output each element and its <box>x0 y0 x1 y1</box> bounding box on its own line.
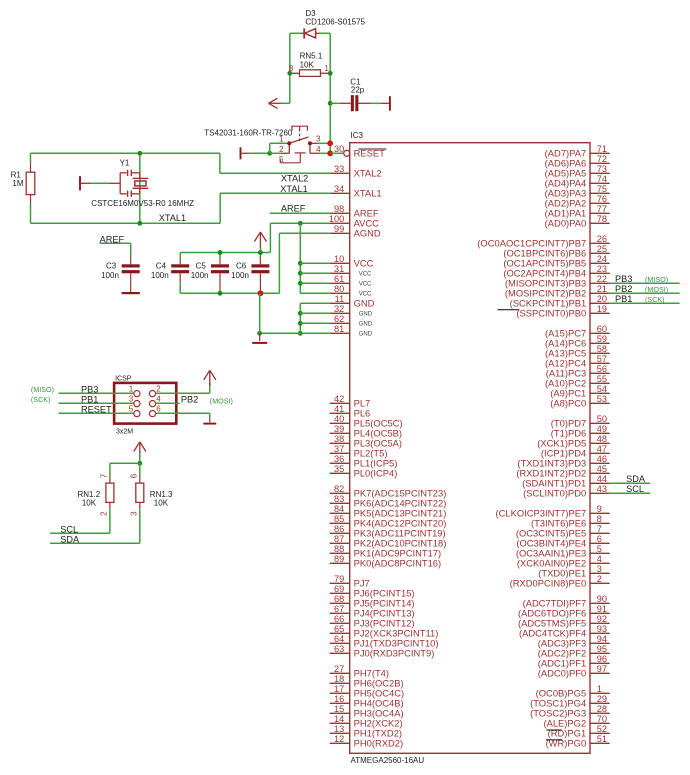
svg-text:XTAL2: XTAL2 <box>354 168 382 179</box>
svg-text:C3: C3 <box>106 261 117 270</box>
svg-text:80: 80 <box>334 284 344 294</box>
svg-text:PB2: PB2 <box>181 395 198 405</box>
svg-text:1M: 1M <box>12 179 23 188</box>
svg-text:6: 6 <box>156 404 161 413</box>
svg-text:7: 7 <box>100 473 109 478</box>
svg-text:9: 9 <box>597 504 602 514</box>
svg-text:23: 23 <box>597 264 607 274</box>
svg-text:42: 42 <box>334 394 344 404</box>
svg-text:2: 2 <box>279 145 284 154</box>
svg-text:PK0(ADC8PCINT16): PK0(ADC8PCINT16) <box>354 558 442 569</box>
svg-text:3: 3 <box>597 564 602 574</box>
svg-text:22: 22 <box>597 274 607 284</box>
svg-text:52: 52 <box>597 724 607 734</box>
svg-text:3: 3 <box>130 511 139 516</box>
svg-text:4: 4 <box>156 394 161 403</box>
svg-text:68: 68 <box>334 594 344 604</box>
svg-text:GND: GND <box>359 312 373 318</box>
svg-text:60: 60 <box>597 324 607 334</box>
svg-text:37: 37 <box>334 444 344 454</box>
svg-text:94: 94 <box>597 634 607 644</box>
svg-text:59: 59 <box>597 334 607 344</box>
svg-text:(MOSI): (MOSI) <box>210 397 233 406</box>
svg-text:3x2M: 3x2M <box>116 429 133 436</box>
svg-text:1: 1 <box>279 135 284 144</box>
svg-text:65: 65 <box>334 624 344 634</box>
svg-text:18: 18 <box>334 674 344 684</box>
svg-text:47: 47 <box>597 444 607 454</box>
svg-text:74: 74 <box>597 174 607 184</box>
svg-text:8: 8 <box>597 514 602 524</box>
svg-text:45: 45 <box>597 464 607 474</box>
svg-text:44: 44 <box>597 474 607 484</box>
svg-text:XTAL2: XTAL2 <box>281 174 308 184</box>
svg-text:(ADC0)PF0: (ADC0)PF0 <box>538 668 586 679</box>
svg-text:(RXD0PCIN8)PE0: (RXD0PCIN8)PE0 <box>510 578 587 589</box>
svg-text:PB2: PB2 <box>615 284 632 294</box>
svg-text:100: 100 <box>329 214 344 224</box>
svg-text:10K: 10K <box>300 60 315 69</box>
svg-text:28: 28 <box>597 704 607 714</box>
svg-text:IC3: IC3 <box>351 131 364 140</box>
svg-text:C5: C5 <box>196 261 207 270</box>
svg-text:33: 33 <box>334 164 344 174</box>
svg-text:21: 21 <box>597 284 607 294</box>
svg-text:5: 5 <box>279 155 284 164</box>
svg-text:66: 66 <box>334 614 344 624</box>
svg-text:2: 2 <box>156 384 161 393</box>
svg-text:XTAL1: XTAL1 <box>280 184 307 194</box>
svg-text:82: 82 <box>334 484 344 494</box>
svg-text:1: 1 <box>129 384 134 393</box>
svg-text:100n: 100n <box>231 271 249 280</box>
svg-text:GND: GND <box>354 298 375 309</box>
svg-text:64: 64 <box>334 634 344 644</box>
svg-text:92: 92 <box>597 614 607 624</box>
svg-text:34: 34 <box>334 184 344 194</box>
svg-text:16: 16 <box>334 694 344 704</box>
svg-text:13: 13 <box>334 724 344 734</box>
svg-text:40: 40 <box>334 414 344 424</box>
svg-text:10: 10 <box>334 254 344 264</box>
svg-text:2: 2 <box>597 574 602 584</box>
svg-text:VCC: VCC <box>354 258 374 269</box>
svg-text:24: 24 <box>597 254 607 264</box>
svg-text:84: 84 <box>334 504 344 514</box>
svg-text:AREF: AREF <box>281 204 306 214</box>
svg-text:GND: GND <box>359 332 373 338</box>
svg-text:78: 78 <box>597 214 607 224</box>
svg-text:32: 32 <box>334 304 344 314</box>
svg-text:77: 77 <box>597 204 607 214</box>
svg-text:5: 5 <box>597 544 602 554</box>
svg-text:95: 95 <box>597 644 607 654</box>
svg-text:55: 55 <box>597 374 607 384</box>
svg-text:62: 62 <box>334 314 344 324</box>
svg-text:96: 96 <box>597 654 607 664</box>
svg-text:88: 88 <box>334 544 344 554</box>
svg-text:67: 67 <box>334 604 344 614</box>
svg-text:(SCK): (SCK) <box>645 295 665 304</box>
svg-text:56: 56 <box>597 364 607 374</box>
svg-text:48: 48 <box>597 434 607 444</box>
svg-text:SDA: SDA <box>60 534 80 544</box>
svg-text:58: 58 <box>597 344 607 354</box>
svg-text:C4: C4 <box>156 261 167 270</box>
svg-text:27: 27 <box>334 664 344 674</box>
svg-text:VCC: VCC <box>359 282 372 288</box>
svg-text:VCC: VCC <box>359 272 372 278</box>
svg-text:12: 12 <box>334 734 344 744</box>
svg-text:SCL: SCL <box>626 484 644 494</box>
svg-text:49: 49 <box>597 424 607 434</box>
svg-text:79: 79 <box>334 574 344 584</box>
svg-text:91: 91 <box>597 604 607 614</box>
svg-text:RN1.3: RN1.3 <box>150 490 173 499</box>
svg-text:30: 30 <box>334 144 344 154</box>
svg-text:54: 54 <box>597 384 607 394</box>
svg-text:51: 51 <box>597 734 607 744</box>
svg-text:Y1: Y1 <box>120 159 130 168</box>
svg-text:35: 35 <box>334 464 344 474</box>
svg-text:3: 3 <box>129 394 134 403</box>
svg-text:C6: C6 <box>236 261 247 270</box>
svg-text:6: 6 <box>597 534 602 544</box>
svg-text:86: 86 <box>334 524 344 534</box>
svg-text:6: 6 <box>130 473 139 478</box>
svg-text:26: 26 <box>597 234 607 244</box>
svg-text:93: 93 <box>597 624 607 634</box>
svg-text:50: 50 <box>597 414 607 424</box>
svg-text:CSTCE16M0V53-R0 16MHZ: CSTCE16M0V53-R0 16MHZ <box>91 199 194 208</box>
svg-text:(A8)PC0: (A8)PC0 <box>550 398 586 409</box>
svg-text:CD1206-S01575: CD1206-S01575 <box>305 17 365 26</box>
svg-text:14: 14 <box>334 714 344 724</box>
svg-text:25: 25 <box>597 244 607 254</box>
svg-text:57: 57 <box>597 354 607 364</box>
svg-text:81: 81 <box>334 324 344 334</box>
svg-text:10K: 10K <box>82 499 97 508</box>
svg-text:RN5.1: RN5.1 <box>300 52 323 61</box>
svg-text:83: 83 <box>334 494 344 504</box>
svg-text:100n: 100n <box>101 271 119 280</box>
svg-text:76: 76 <box>597 194 607 204</box>
svg-text:85: 85 <box>334 514 344 524</box>
svg-text:36: 36 <box>334 454 344 464</box>
svg-text:29: 29 <box>597 694 607 704</box>
svg-text:61: 61 <box>334 274 344 284</box>
svg-text:PB3: PB3 <box>615 274 632 284</box>
svg-text:63: 63 <box>334 644 344 654</box>
svg-text:5: 5 <box>129 404 134 413</box>
svg-text:(SCLINT0)PD0: (SCLINT0)PD0 <box>523 488 586 499</box>
svg-text:2: 2 <box>100 511 109 516</box>
svg-text:PB1: PB1 <box>81 395 98 405</box>
svg-text:15: 15 <box>334 704 344 714</box>
svg-text:7: 7 <box>597 524 602 534</box>
svg-text:90: 90 <box>597 594 607 604</box>
svg-text:99: 99 <box>334 224 344 234</box>
svg-text:AGND: AGND <box>354 228 381 239</box>
svg-text:(AD0)PA0: (AD0)PA0 <box>545 218 587 229</box>
svg-text:1: 1 <box>597 684 602 694</box>
svg-text:(MISO): (MISO) <box>645 275 668 284</box>
svg-text:70: 70 <box>597 714 607 724</box>
svg-text:100n: 100n <box>151 271 169 280</box>
svg-text:53: 53 <box>597 394 607 404</box>
svg-text:46: 46 <box>597 454 607 464</box>
svg-text:RESET: RESET <box>81 405 112 415</box>
svg-text:PB1: PB1 <box>615 294 632 304</box>
svg-text:(MISO): (MISO) <box>31 385 54 394</box>
svg-text:SDA: SDA <box>626 474 646 484</box>
svg-text:43: 43 <box>597 484 607 494</box>
svg-text:100n: 100n <box>191 271 209 280</box>
svg-text:SCL: SCL <box>60 524 78 534</box>
svg-text:PB3: PB3 <box>81 385 98 395</box>
svg-text:39: 39 <box>334 424 344 434</box>
svg-text:XTAL1: XTAL1 <box>354 188 382 199</box>
svg-text:89: 89 <box>334 554 344 564</box>
svg-text:38: 38 <box>334 434 344 444</box>
svg-text:GND: GND <box>359 322 373 328</box>
svg-text:ICSP: ICSP <box>115 375 132 382</box>
svg-text:31: 31 <box>334 264 344 274</box>
svg-text:ATMEGA2560-16AU: ATMEGA2560-16AU <box>351 756 425 765</box>
svg-text:PJ0(RXD3PCINT9): PJ0(RXD3PCINT9) <box>354 648 435 659</box>
svg-text:87: 87 <box>334 534 344 544</box>
svg-text:69: 69 <box>334 584 344 594</box>
svg-text:20: 20 <box>597 294 607 304</box>
svg-text:PL0(ICP4): PL0(ICP4) <box>354 468 398 479</box>
svg-text:98: 98 <box>334 204 344 214</box>
svg-text:73: 73 <box>597 164 607 174</box>
svg-text:75: 75 <box>597 184 607 194</box>
svg-text:10K: 10K <box>154 499 169 508</box>
svg-text:PH0(RXD2): PH0(RXD2) <box>354 738 404 749</box>
svg-text:(MOSI): (MOSI) <box>645 285 668 294</box>
svg-text:11: 11 <box>335 294 345 304</box>
svg-text:71: 71 <box>597 144 607 154</box>
svg-text:XTAL1: XTAL1 <box>159 213 186 223</box>
svg-text:3: 3 <box>316 135 321 144</box>
svg-text:41: 41 <box>334 404 344 414</box>
svg-text:19: 19 <box>597 304 607 314</box>
svg-text:4: 4 <box>316 145 321 154</box>
svg-text:72: 72 <box>597 154 607 164</box>
svg-text:4: 4 <box>597 554 602 564</box>
svg-text:(SSPCINT0)PB0: (SSPCINT0)PB0 <box>516 308 586 319</box>
svg-text:17: 17 <box>334 684 344 694</box>
svg-text:22p: 22p <box>351 86 365 95</box>
svg-text:97: 97 <box>597 664 607 674</box>
svg-text:(SCK): (SCK) <box>31 395 51 404</box>
svg-text:RN1.2: RN1.2 <box>78 490 101 499</box>
